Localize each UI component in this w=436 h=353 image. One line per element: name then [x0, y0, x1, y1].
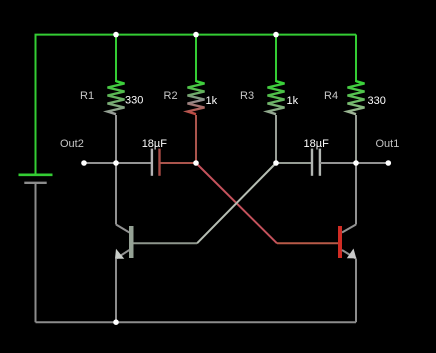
svg-text:330: 330 [125, 95, 143, 107]
svg-text:R3: R3 [240, 90, 254, 102]
svg-text:Out2: Out2 [60, 138, 84, 150]
value 330 (R4) [368, 95, 386, 107]
label R1 [80, 90, 94, 102]
transistor Q2 [338, 225, 356, 259]
wire left emitter drop [115, 259, 117, 323]
node left collector [113, 160, 119, 166]
wire bottom ground rail [36, 321, 357, 323]
resistor R2 [188, 35, 205, 163]
wire battery negative down [35, 183, 37, 322]
capacitor C2 18uF [276, 149, 356, 176]
terminal Out2 [81, 160, 87, 166]
value 18uF (C2) [304, 138, 330, 150]
wire battery positive up [35, 35, 37, 175]
svg-text:R4: R4 [324, 90, 338, 102]
node top rail R3 [273, 32, 279, 38]
wire top rail drop to R4 [355, 35, 357, 82]
value 18uF (C1) [142, 138, 168, 150]
transistor Q1 [115, 225, 134, 259]
wire left collector drop [115, 163, 117, 225]
svg-text:R2: R2 [164, 90, 178, 102]
wire cross-couple red (right base) [196, 163, 338, 243]
label R3 [240, 90, 254, 102]
label Out2 [60, 138, 84, 150]
svg-text:1k: 1k [206, 95, 218, 107]
svg-text:R1: R1 [80, 90, 94, 102]
resistor R3 [268, 35, 285, 163]
svg-text:330: 330 [368, 95, 386, 107]
terminal Out1 [386, 160, 392, 166]
capacitor C1 18uF [116, 149, 196, 176]
value 1k (R2) [206, 95, 218, 107]
node left base cap junction [273, 160, 279, 166]
resistor R4 [348, 35, 365, 163]
wire Out1 stub [356, 162, 388, 164]
node top rail R1 [113, 32, 119, 38]
wire cross-couple gray (left base) [134, 163, 277, 243]
label Out1 [376, 138, 400, 150]
battery V1 [19, 175, 53, 183]
value 330 (R1) [125, 95, 143, 107]
value 1k (R3) [287, 95, 299, 107]
label R2 [164, 90, 178, 102]
wire right emitter drop [355, 259, 357, 323]
wire Out2 stub [84, 162, 116, 164]
svg-text:1k: 1k [287, 95, 299, 107]
wire right collector drop [355, 163, 357, 225]
label R4 [324, 90, 338, 102]
svg-text:Out1: Out1 [376, 138, 400, 150]
svg-text:18µF: 18µF [304, 138, 330, 150]
node top rail R2 [193, 32, 199, 38]
node ground rail [113, 319, 119, 325]
svg-text:18µF: 18µF [142, 138, 168, 150]
resistor R1 [108, 35, 125, 163]
wire top supply rail [35, 34, 357, 36]
node right collector [353, 160, 359, 166]
node right base cap junction [193, 160, 199, 166]
